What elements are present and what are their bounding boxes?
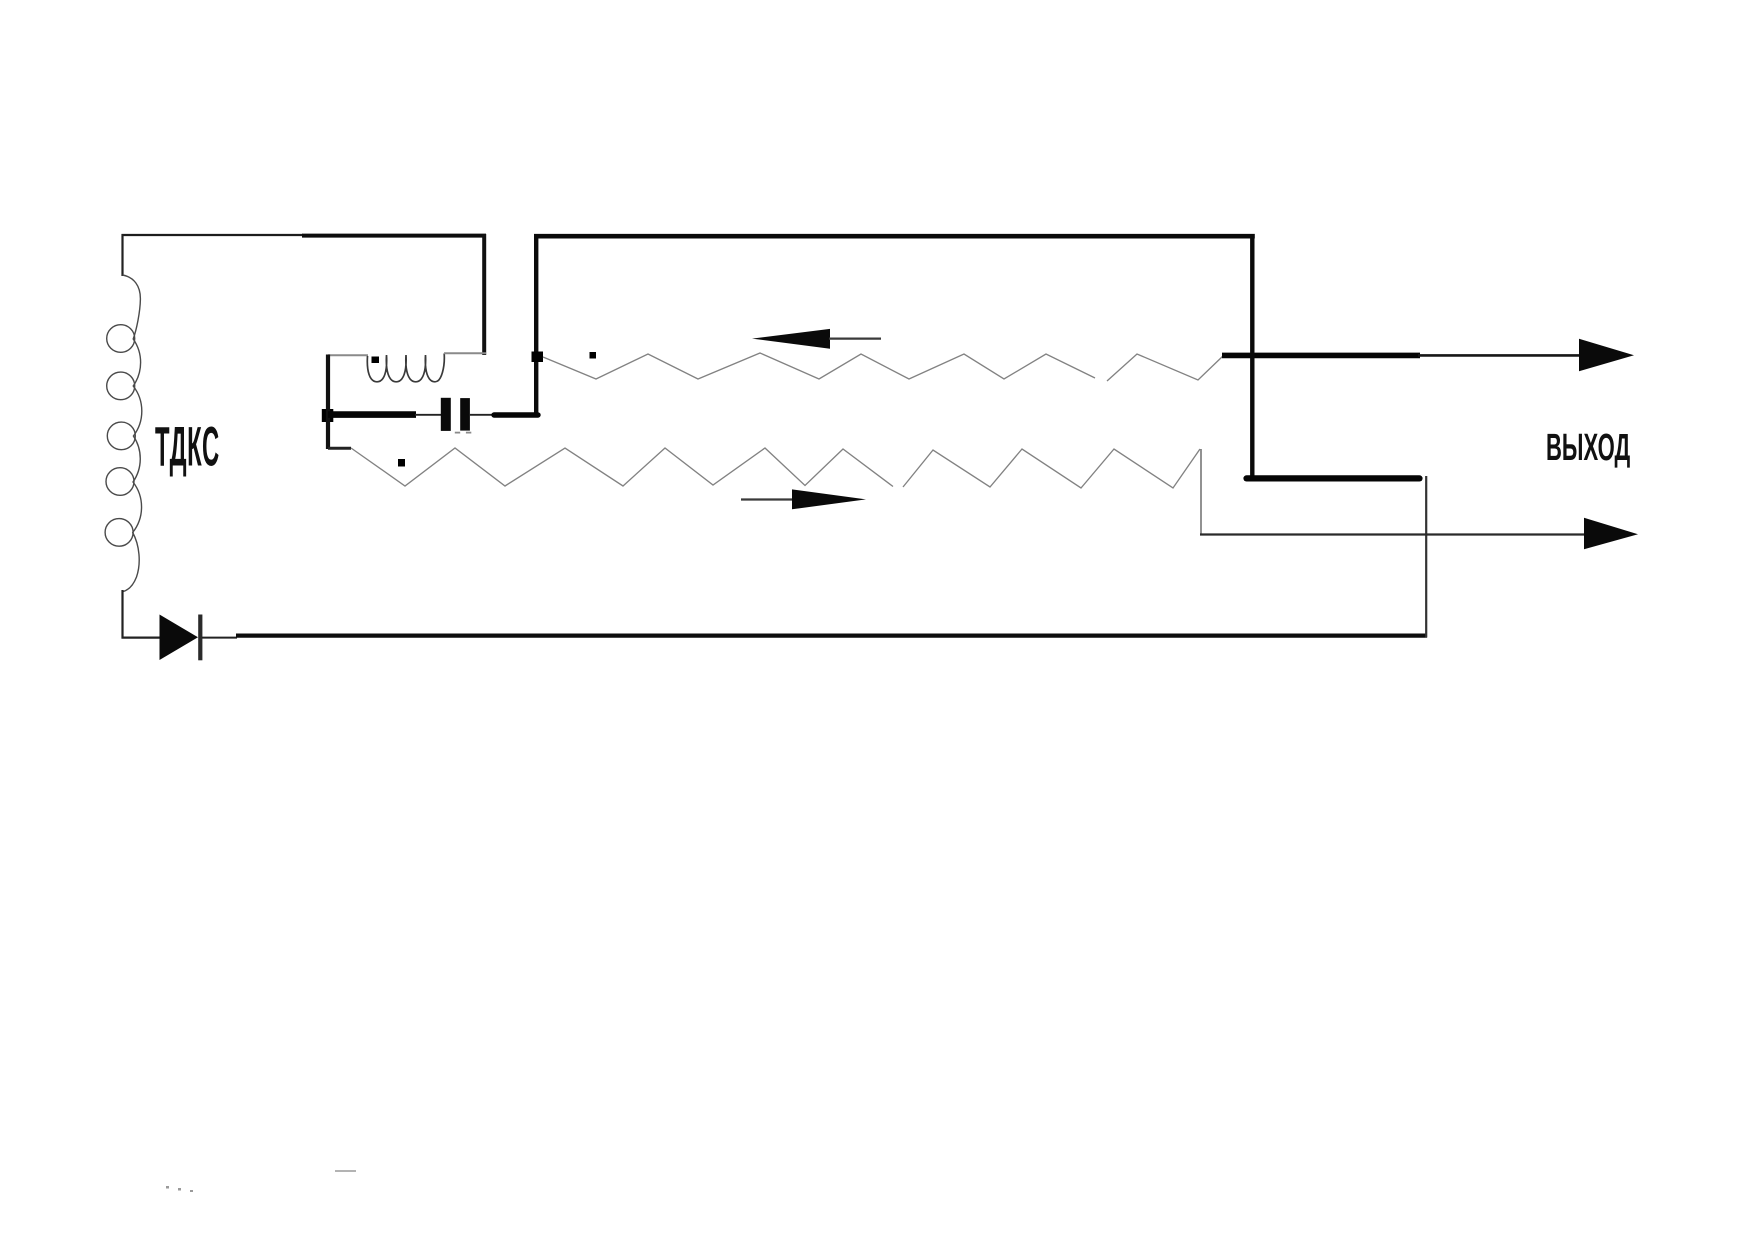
wire bottom thin after diode bbox=[202, 637, 237, 639]
wire left vertical V5 (cap node up to inductor lead) bbox=[326, 355, 330, 450]
current arrow tail bbox=[829, 338, 881, 340]
wire left vertical transformer bottom to bottom wire bbox=[121, 590, 123, 639]
artifact faint specks bbox=[166, 1186, 193, 1192]
output arrow upper bbox=[1579, 339, 1634, 372]
inductor L1 polarity dot bbox=[372, 357, 380, 364]
wire thick mid output (upper) bbox=[1222, 353, 1420, 359]
transformer T1 winding loop 2 bbox=[107, 372, 135, 400]
wire thin capacitor right lead bbox=[470, 414, 495, 416]
diode VD anode triangle bbox=[160, 615, 199, 661]
transformer T1 winding loop 1 bbox=[107, 325, 135, 353]
wire lower output line bbox=[1200, 533, 1586, 535]
wire thin vertical from R2 end down bbox=[1200, 449, 1202, 535]
transformer T1 winding loop 4 bbox=[106, 468, 134, 496]
svg-text:ВЫХОД: ВЫХОД bbox=[1546, 426, 1630, 469]
wire left vertical from top wire to transformer top bbox=[121, 234, 123, 276]
current arrow left-pointing over R1 bbox=[752, 329, 830, 349]
wire bottom thin from transformer to diode bbox=[122, 636, 161, 638]
resistor R1 polarity dot bbox=[590, 352, 597, 359]
wire thick capacitor right lead bbox=[494, 412, 538, 417]
wire thin lead from inductor to vertical drop bbox=[444, 352, 486, 354]
wire vertical V2 from top wire to capacitor level bbox=[534, 234, 538, 418]
wire thin tail to upper output arrow bbox=[1418, 354, 1582, 357]
inductor L1 coil bbox=[367, 354, 444, 382]
wire thin vertical V4 down to bottom wire bbox=[1425, 476, 1427, 638]
resistor R2 lower zigzag bbox=[351, 448, 1200, 488]
wire thick bar at lower right of V3 bbox=[1247, 475, 1420, 481]
resistor R2 polarity dot bbox=[398, 459, 405, 467]
wire bottom thick run to right bbox=[236, 633, 1427, 637]
transformer T1 winding loop 5 bbox=[105, 519, 133, 547]
capacitor artifact dash 2 bbox=[466, 432, 471, 434]
wire thin capacitor left lead bbox=[415, 414, 442, 416]
svg-text:ТДКС: ТДКС bbox=[155, 416, 219, 478]
diode VD cathode bar bbox=[198, 615, 202, 661]
wire vertical V3 right thick bbox=[1250, 234, 1254, 479]
current arrow right-pointing under R2 bbox=[792, 489, 866, 509]
output arrow lower bbox=[1584, 518, 1638, 550]
wire thick capacitor left lead bbox=[328, 411, 416, 418]
wire top horizontal thick (second segment) bbox=[534, 234, 1255, 239]
junction node square upper (zigzag start) bbox=[532, 352, 544, 363]
junction node square left (capacitor node) bbox=[322, 409, 334, 422]
transformer T1 ТДКС winding outline bbox=[123, 275, 142, 592]
artifact faint line bottom-left bbox=[335, 1170, 356, 1172]
wire top-left horizontal thin bbox=[122, 234, 304, 236]
capacitor C1 right plate bbox=[460, 398, 470, 431]
transformer T1 winding loop 3 bbox=[107, 422, 135, 450]
wire top-left horizontal thick bbox=[302, 234, 486, 238]
wire thin lead from left vertical to inductor bbox=[328, 354, 368, 356]
resistor R1 upper zigzag bbox=[543, 353, 1224, 381]
wire vertical drop to inductor right bbox=[482, 234, 486, 355]
wire elbow to lower zigzag bbox=[328, 447, 351, 450]
capacitor artifact dash 1 bbox=[455, 432, 460, 434]
capacitor C1 left plate bbox=[441, 398, 451, 431]
current arrow right-pointing under R2 tail bbox=[741, 498, 793, 500]
